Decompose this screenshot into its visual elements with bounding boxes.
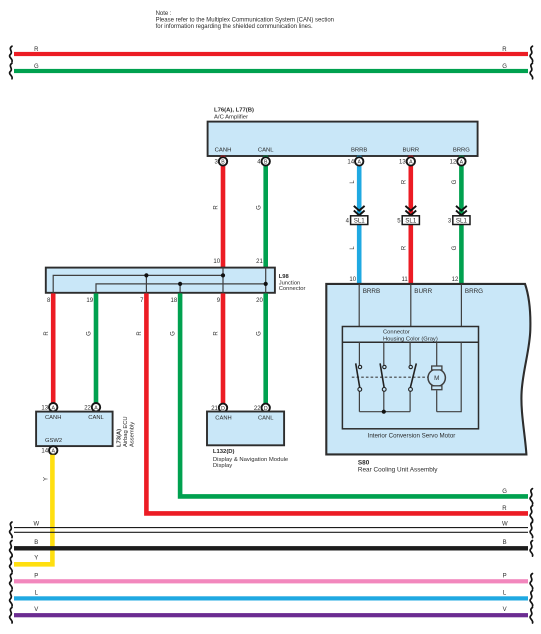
- svg-text:Rear Cooling Unit Assembly: Rear Cooling Unit Assembly: [358, 466, 438, 473]
- wire R bus (top): [14, 52, 528, 56]
- svg-text:CANL: CANL: [258, 416, 274, 422]
- svg-text:M: M: [434, 375, 439, 382]
- svg-text:12: 12: [452, 277, 459, 283]
- svg-text:A: A: [460, 160, 464, 166]
- svg-text:R: R: [137, 331, 143, 336]
- junction dot switch2 common: [382, 410, 386, 414]
- display & navigation module L132(D): [207, 412, 284, 446]
- wire internal CANH bus (pins 8-7-9-10): [53, 275, 223, 293]
- svg-text:Interior Conversion Servo Moto: Interior Conversion Servo Motor: [368, 433, 456, 440]
- svg-text:G: G: [502, 489, 507, 495]
- svg-text:BURR: BURR: [402, 148, 419, 154]
- svg-text:Note :: Note :: [156, 11, 172, 17]
- svg-text:R: R: [502, 506, 507, 512]
- svg-text:22: 22: [84, 406, 91, 412]
- junction dot pin7/CANH: [144, 273, 148, 277]
- wire R junction pin8 to airbag pin13: [51, 293, 56, 403]
- svg-text:CANH: CANH: [215, 148, 232, 154]
- svg-text:S80: S80: [358, 459, 370, 466]
- shield point SL1 (3) on BRRG: [456, 206, 467, 211]
- svg-text:A: A: [357, 160, 361, 166]
- svg-text:Assembly: Assembly: [129, 422, 135, 447]
- wire W bus: [14, 528, 528, 533]
- svg-text:A: A: [409, 160, 413, 166]
- svg-text:BRRG: BRRG: [453, 148, 470, 154]
- svg-text:CANH: CANH: [45, 415, 61, 421]
- svg-text:20: 20: [256, 298, 263, 304]
- motor M: [428, 369, 445, 386]
- switch 1 (BRRB): [358, 391, 360, 411]
- wire BRRB inside S80: [358, 284, 360, 327]
- svg-text:BRRB: BRRB: [351, 148, 367, 154]
- svg-text:13: 13: [41, 406, 48, 412]
- wire V bus: [14, 613, 528, 617]
- svg-text:L132(D): L132(D): [213, 449, 235, 455]
- switch 3 (BURR): [409, 391, 411, 411]
- svg-text:11: 11: [401, 277, 408, 283]
- svg-text:W: W: [33, 521, 39, 527]
- svg-text:CANL: CANL: [258, 148, 274, 154]
- svg-text:G: G: [171, 331, 177, 336]
- svg-text:G: G: [256, 331, 262, 336]
- svg-text:21: 21: [256, 259, 263, 265]
- wire feed to switch 3: [409, 342, 411, 365]
- wire BRRB (L) pin14 to S80 pin10: [357, 156, 362, 283]
- svg-text:G: G: [452, 245, 458, 250]
- svg-text:B: B: [34, 540, 38, 546]
- junction dot pin21/CANL: [264, 282, 268, 286]
- svg-text:P: P: [503, 573, 507, 579]
- junction dot pin10/CANH: [221, 273, 225, 277]
- pin 4 (B) of A/C amplifier: [262, 157, 270, 165]
- svg-text:Connector: Connector: [279, 286, 306, 292]
- wire switch common bottom: [359, 411, 410, 413]
- svg-text:A: A: [94, 405, 98, 411]
- pin 13 (A) of A/C amplifier: [407, 157, 415, 165]
- wire CANL (G) pin4 to junction pin21: [263, 156, 268, 267]
- pin 14 (A) of A/C amplifier: [355, 157, 363, 165]
- svg-text:R: R: [214, 205, 220, 210]
- svg-text:L98: L98: [279, 274, 290, 280]
- wire BRRG (G) pin12 to S80 pin12: [459, 156, 464, 283]
- wire B bus: [14, 546, 528, 550]
- svg-text:A: A: [51, 449, 55, 455]
- svg-text:G: G: [34, 64, 39, 70]
- svg-text:BRRG: BRRG: [465, 288, 483, 295]
- svg-text:for information regarding the: for information regarding the shielded c…: [156, 24, 313, 30]
- switch 2: [383, 391, 385, 411]
- svg-text:Please refer to the Multiplex: Please refer to the Multiplex Communicat…: [156, 18, 334, 24]
- wire feed to switch 1: [358, 342, 360, 365]
- svg-text:GSW2: GSW2: [45, 438, 62, 444]
- svg-text:SL1: SL1: [456, 218, 468, 225]
- wire BRRG inside S80: [460, 284, 462, 327]
- svg-text:BURR: BURR: [414, 288, 432, 295]
- wire L bus: [14, 596, 528, 600]
- svg-text:Airbag ECU: Airbag ECU: [123, 416, 129, 447]
- svg-text:P: P: [34, 573, 38, 579]
- svg-text:Housing Color (Gray): Housing Color (Gray): [383, 337, 438, 343]
- wire G bus (top): [14, 69, 528, 73]
- wire P bus: [14, 579, 528, 583]
- svg-text:V: V: [503, 607, 507, 613]
- svg-text:BRRB: BRRB: [363, 288, 381, 295]
- svg-text:B: B: [264, 160, 268, 166]
- rear cooling unit assembly S80: [326, 284, 530, 455]
- svg-text:18: 18: [171, 298, 178, 304]
- interior conversion servo motor box: [342, 327, 478, 429]
- wire BURR inside S80: [410, 284, 412, 327]
- shield point SL1 (5) on BURR: [405, 206, 416, 211]
- svg-text:19: 19: [86, 298, 93, 304]
- svg-text:G: G: [87, 331, 93, 336]
- svg-text:L76(A), L77(B): L76(A), L77(B): [214, 108, 254, 114]
- svg-text:L73(A): L73(A): [117, 429, 123, 447]
- airbag ECU assembly L73(A) GSW2: [36, 412, 113, 447]
- wire feed to switch 2: [383, 342, 385, 365]
- pin 13 (A) of airbag ECU: [49, 403, 57, 411]
- junction connector L98: [46, 268, 275, 293]
- svg-text:B: B: [503, 540, 507, 546]
- svg-text:R: R: [401, 179, 407, 184]
- svg-text:13: 13: [399, 160, 406, 166]
- wire CANH (R) pin3 to junction pin10: [221, 156, 226, 267]
- svg-text:10: 10: [349, 277, 356, 283]
- svg-text:V: V: [34, 607, 38, 613]
- svg-text:Display: Display: [213, 463, 232, 469]
- svg-text:10: 10: [213, 259, 220, 265]
- pin 21 (D) of display: [219, 404, 227, 412]
- shield point SL1 (4) on BRRB: [354, 206, 365, 211]
- mechanical linkage (dashed): [352, 376, 428, 378]
- svg-text:R: R: [34, 47, 39, 53]
- wire feed to motor (-) right side: [437, 342, 462, 412]
- wire internal CANL bus (pins 19-18-20-21): [96, 284, 266, 294]
- svg-text:SL1: SL1: [405, 218, 417, 225]
- pin 22 (A) of airbag ECU: [92, 403, 100, 411]
- wire G junction pin20 to display pin22: [263, 293, 268, 403]
- connector housing header: [342, 341, 478, 343]
- wire G junction pin18 to G bus (bottom): [180, 293, 528, 496]
- pin 22 (D) of display: [262, 404, 270, 412]
- wire R junction pin7 to R bus (bottom): [146, 293, 528, 513]
- wire G junction pin19 to airbag pin22: [94, 293, 99, 403]
- pin 12 (A) of A/C amplifier: [457, 157, 465, 165]
- svg-text:12: 12: [450, 160, 457, 166]
- svg-text:W: W: [502, 521, 508, 527]
- svg-text:G: G: [256, 205, 262, 210]
- svg-text:Y: Y: [43, 477, 49, 481]
- wire feed to motor (+): [436, 342, 438, 366]
- svg-text:R: R: [44, 331, 50, 336]
- svg-text:R: R: [401, 245, 407, 250]
- svg-text:A/C Amplifier: A/C Amplifier: [214, 114, 248, 120]
- svg-text:G: G: [502, 64, 507, 70]
- svg-text:14: 14: [41, 449, 48, 455]
- svg-text:R: R: [502, 47, 507, 53]
- pin 3 (B) of A/C amplifier: [219, 157, 227, 165]
- svg-text:B: B: [221, 160, 225, 166]
- wire BURR (R) pin13 to S80 pin11: [409, 156, 414, 283]
- pin 14 (A) of airbag ECU: [49, 446, 57, 454]
- wire Y airbag pin14 to Y bus: [14, 455, 52, 565]
- wire R junction pin9 to display pin21: [221, 293, 226, 403]
- svg-text:CANH: CANH: [215, 416, 231, 422]
- svg-text:Connector: Connector: [383, 330, 410, 336]
- svg-text:Y: Y: [34, 555, 38, 561]
- svg-text:G: G: [452, 179, 458, 184]
- junction dot pin18/CANL: [178, 282, 182, 286]
- svg-text:R: R: [214, 331, 220, 336]
- svg-text:A: A: [51, 405, 55, 411]
- svg-text:CANL: CANL: [88, 415, 104, 421]
- svg-text:SL1: SL1: [354, 218, 366, 225]
- svg-text:14: 14: [347, 160, 354, 166]
